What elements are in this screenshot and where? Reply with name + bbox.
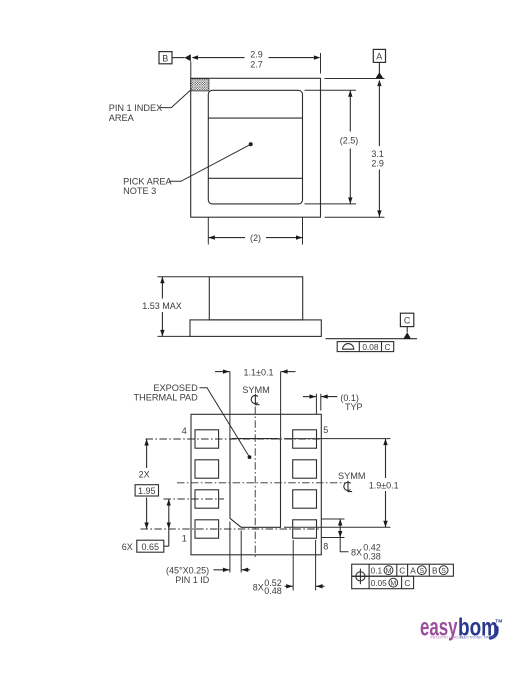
dimension 2X 1.95: dimension line [146, 439, 148, 468]
horizontal SYMM centerline [177, 482, 345, 484]
datum A triangle [375, 72, 383, 78]
leader to thermal pad [200, 388, 250, 457]
dimension (45°X0.25): arrows [214, 569, 230, 571]
pad pin 7 [293, 490, 317, 508]
dimension (45°X0.25): extension lines [229, 522, 231, 573]
svg-text:PIN 1 ID: PIN 1 ID [175, 575, 210, 585]
svg-text:SYMM: SYMM [242, 385, 270, 395]
svg-text:0.38: 0.38 [363, 552, 381, 562]
exposed thermal pad outline with pin-1 chamfer [230, 439, 281, 528]
seating plane line [326, 338, 418, 340]
centerline: pad row 3 (pins 2/7) [164, 498, 225, 500]
svg-text:PICK AREA: PICK AREA [123, 176, 172, 186]
svg-text:C: C [399, 565, 405, 575]
1.53 MAX extension lines [158, 276, 210, 278]
easybom logo [420, 614, 502, 642]
svg-text:(2): (2) [250, 233, 261, 243]
svg-text:M: M [390, 581, 396, 588]
boxed 1.95 value [135, 485, 158, 496]
boxed 0.65 value [137, 540, 164, 552]
extension line bottom-right for 3.1 dim [325, 216, 385, 218]
leader: PIN 1 INDEX AREA [160, 89, 192, 107]
datum A symbol box [373, 49, 385, 62]
svg-text:(2.5): (2.5) [340, 136, 359, 146]
top view: upper divider line [208, 117, 302, 119]
vertical SYMM centerline [254, 407, 256, 559]
dimension 8X 0.52/0.48: extension lines [292, 540, 294, 591]
svg-text:1.9±0.1: 1.9±0.1 [369, 480, 399, 490]
dimension (0.1) TYP: extension lines [315, 394, 317, 414]
svg-text:TM: TM [495, 619, 502, 625]
pad pin 6 [293, 460, 317, 478]
svg-text:TYP: TYP [345, 402, 363, 412]
terminal pads left column (pins 4,3,2,1) [195, 430, 317, 538]
svg-text:NOTE 3: NOTE 3 [123, 186, 156, 196]
position symbol [353, 569, 369, 585]
dimension 3.1/2.9: bottom arrowhead [377, 210, 381, 217]
svg-text:M: M [386, 568, 392, 575]
dimension 3.1/2.9: dimension line [378, 82, 380, 146]
datum C triangle [403, 332, 411, 339]
dimension 8X 0.42/0.38: extension lines [321, 518, 344, 520]
pad pin 2 [195, 490, 219, 508]
top view: lower divider line [208, 177, 302, 179]
dimension (2.5): extension lines [305, 89, 357, 91]
side view: lead frame base [190, 320, 321, 337]
svg-text:A: A [376, 52, 382, 62]
centerline: pad row 4 (pins 1/8) [141, 528, 321, 530]
centerline: pad row 1 (pins 4/5) [146, 438, 321, 440]
TOP VIEW: package body outline [191, 78, 321, 217]
dimension 1.9±0.1: extension lines [284, 438, 390, 440]
dimension 2.9/2.7: left arrowhead [192, 55, 199, 59]
profile-of-surface symbol [343, 344, 354, 350]
svg-text:S: S [441, 568, 446, 575]
svg-text:AREA: AREA [109, 113, 135, 123]
svg-text:1.53 MAX: 1.53 MAX [142, 301, 182, 311]
svg-text:C: C [404, 578, 410, 588]
top view: mold cap / pick area rounded rect [208, 90, 302, 204]
svg-text:(45°X0.25): (45°X0.25) [166, 565, 209, 575]
datum B triangle on extension line [185, 54, 191, 61]
svg-text:B: B [432, 565, 438, 575]
svg-text:2.9: 2.9 [371, 158, 384, 168]
svg-text:ELECTRONIC PARTS: ELECTRONIC PARTS [460, 636, 496, 640]
svg-text:1: 1 [182, 534, 187, 544]
SIDE VIEW: mold body [209, 277, 302, 320]
pad pin 8 [293, 520, 317, 538]
pin 1 index hatched area [191, 79, 209, 91]
svg-text:3.1: 3.1 [371, 149, 384, 159]
svg-text:SYMM: SYMM [338, 471, 366, 481]
svg-text:S: S [419, 568, 424, 575]
svg-text:0.08: 0.08 [362, 342, 379, 352]
svg-text:0.65: 0.65 [142, 542, 160, 552]
leader to 8X 0.42/0.38 label [340, 538, 348, 552]
dimension 1.1±0.1: arrows outside [215, 371, 230, 373]
pick area dot [249, 142, 253, 146]
leader: PICK AREA NOTE 3 [169, 144, 251, 181]
dimension 8X 0.52/0.48: arrows [285, 585, 294, 587]
svg-text:B: B [162, 53, 168, 63]
svg-text:2.9: 2.9 [250, 49, 263, 59]
svg-text:1.1±0.1: 1.1±0.1 [244, 367, 274, 377]
BOTTOM VIEW: package outline [191, 414, 321, 555]
svg-text:PIN 1 INDEX: PIN 1 INDEX [109, 103, 163, 113]
svg-text:0.1: 0.1 [371, 565, 383, 575]
dimension 1.1±0.1: extension lines from thermal pad [229, 372, 231, 439]
svg-text:8X: 8X [253, 583, 264, 593]
dimension (0.1) TYP: arrows [303, 396, 316, 398]
dimension (2): extension lines [207, 217, 209, 244]
pad pin 5 [293, 430, 317, 448]
dimension (2.5): dimension line [349, 90, 351, 131]
centerline symbol right [344, 481, 352, 492]
datum B symbol box [159, 52, 172, 64]
dimension (2): dimension line [208, 237, 245, 239]
svg-text:6X: 6X [122, 542, 133, 552]
feature control frame: position tolerance, two rows [352, 564, 454, 589]
svg-text:2X: 2X [139, 469, 150, 479]
svg-text:0.05: 0.05 [371, 578, 388, 588]
extension line left (package left edge up) [190, 61, 192, 78]
svg-text:8X: 8X [351, 548, 362, 558]
svg-text:4: 4 [182, 426, 187, 436]
dimension 6X 0.65: dimension line [168, 499, 170, 529]
datum C stem [406, 327, 408, 333]
feature control frame: profile 0.08 C [337, 342, 394, 352]
dimension 2.9/2.7: dimension line segments [198, 57, 245, 59]
extension line top-right for 3.1 dim [325, 78, 385, 80]
dimension 1.53 MAX: dimension line [161, 277, 163, 299]
pad pin 1 [195, 520, 219, 538]
datum A stem [378, 62, 380, 72]
svg-text:2.7: 2.7 [250, 59, 263, 69]
svg-text:0.48: 0.48 [264, 586, 282, 596]
svg-text:C: C [404, 316, 411, 326]
dimension 2.9/2.7: right arrowhead [314, 55, 321, 59]
datum B leader line [172, 57, 185, 59]
centerline symbol top [251, 394, 259, 405]
svg-text:5: 5 [323, 425, 328, 435]
dimension 3.1/2.9: top arrowhead [377, 80, 381, 87]
extension line right for 2.9 dim [320, 53, 322, 74]
svg-text:A: A [410, 565, 416, 575]
svg-text:1.95: 1.95 [138, 486, 156, 496]
dimension 1.9±0.1: dimension line [385, 439, 387, 478]
pad pin 4 [195, 430, 219, 448]
datum C symbol box [400, 313, 413, 326]
svg-text:C: C [385, 342, 391, 352]
dimension 8X 0.42/0.38: dimension line with arrows [339, 519, 341, 538]
svg-text:THERMAL PAD: THERMAL PAD [133, 392, 198, 402]
pad pin 3 [195, 460, 219, 478]
svg-text:8: 8 [323, 542, 328, 552]
